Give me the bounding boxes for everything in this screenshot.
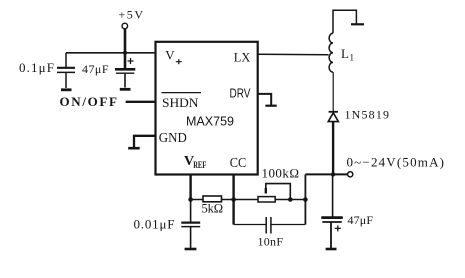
svg-text:1: 1	[350, 53, 355, 63]
ground of C2	[120, 88, 131, 91]
svg-text:CC: CC	[230, 156, 247, 171]
wire output link down to feedback node	[304, 174, 306, 224]
wire CC junction to R2	[234, 199, 258, 201]
ground of C4	[326, 248, 337, 251]
node CC junction	[231, 197, 236, 202]
ground of C5	[185, 248, 197, 251]
wire L1 top to ground stub	[333, 10, 356, 33]
svg-text:GND: GND	[159, 131, 187, 146]
wire LX to inductor	[258, 53, 329, 56]
svg-text:ON/OFF: ON/OFF	[60, 94, 118, 109]
resistor R1 5k	[203, 196, 222, 202]
ground of DRV	[265, 105, 276, 107]
ground of GND pin	[128, 147, 140, 150]
pin label SHDN with overline	[162, 92, 202, 94]
svg-text:V: V	[165, 47, 175, 62]
svg-text:LX: LX	[234, 50, 251, 65]
node link junction	[303, 197, 308, 202]
wire bottom path left (CC down leg already) to 10nF	[234, 224, 266, 226]
svg-text:SHDN: SHDN	[162, 95, 199, 110]
svg-text:10nF: 10nF	[258, 234, 284, 248]
svg-text:+5V: +5V	[119, 8, 144, 22]
node pot right junction	[288, 197, 293, 202]
wire VREF junction to R1	[191, 199, 203, 201]
svg-text:L: L	[341, 46, 349, 61]
svg-text:0~−24V(50mA): 0~−24V(50mA)	[347, 155, 445, 170]
svg-text:1N5819: 1N5819	[345, 108, 390, 122]
capacitor C1 0.1uF	[57, 53, 75, 88]
inductor L1 coil	[329, 33, 333, 72]
ground of L1	[351, 23, 364, 25]
node VREF junction	[188, 197, 193, 202]
wiper tick	[265, 188, 267, 194]
svg-text:REF: REF	[193, 160, 206, 170]
wire output rail	[305, 173, 347, 175]
capacitor C2 47uF input	[115, 53, 135, 88]
diode D1 1N5819	[328, 112, 338, 175]
wire DRV pin	[258, 94, 272, 105]
wire R1 to CC junction	[222, 199, 234, 201]
wire 10nF to link	[271, 224, 306, 226]
svg-text:DRV: DRV	[230, 86, 251, 101]
potentiometer wiper arm loop	[266, 184, 291, 200]
svg-text:5kΩ: 5kΩ	[202, 202, 224, 216]
svg-text:47μF: 47μF	[348, 213, 374, 227]
wire inductor to diode	[332, 72, 334, 111]
svg-text:47μF: 47μF	[82, 62, 109, 76]
node rail junction	[123, 51, 127, 55]
wire +5V down to rail	[124, 29, 127, 53]
capacitor C3 10nF	[266, 217, 271, 234]
wire GND pin	[134, 136, 156, 148]
wire top supply rail	[66, 52, 156, 54]
terminal +5V	[122, 23, 128, 29]
resistor R2 100k potentiometer body	[258, 197, 275, 202]
capacitor C5 0.01uF	[181, 200, 200, 249]
terminal output	[348, 172, 353, 177]
node output junction	[331, 172, 335, 176]
svg-text:100kΩ: 100kΩ	[262, 166, 300, 181]
svg-text:0.01μF: 0.01μF	[134, 217, 175, 232]
wire VREF pin down	[189, 175, 191, 200]
IC U1 MAX759 body	[156, 42, 258, 175]
svg-text:0.1μF: 0.1μF	[19, 60, 54, 75]
ground of C1	[61, 88, 72, 91]
wire R2 to junctions	[275, 199, 305, 201]
wire ON/OFF to SHDN pin	[126, 101, 156, 103]
capacitor C4 47uF output	[321, 174, 343, 248]
wire CC pin down	[232, 175, 234, 225]
svg-text:MAX759: MAX759	[186, 114, 234, 128]
